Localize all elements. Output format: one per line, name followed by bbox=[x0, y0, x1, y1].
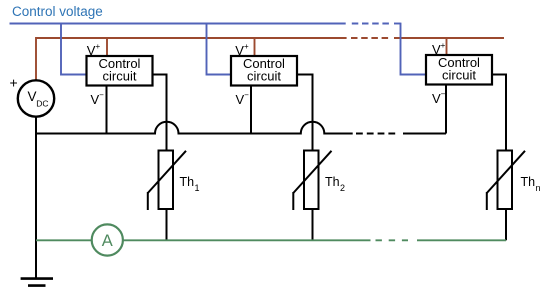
thermistor Th1 bbox=[148, 151, 186, 211]
wire: U1 V- return to black bus bbox=[106, 86, 108, 134]
svg-text:+: + bbox=[10, 75, 18, 91]
ground bbox=[21, 279, 53, 286]
thermistor Thn bbox=[487, 151, 525, 211]
wire: red V+ drop to U2 bbox=[254, 38, 256, 56]
wire: blue control-voltage bus (right segment) bbox=[394, 23, 401, 25]
wire: blue control-voltage bus (solid left section) bbox=[10, 23, 346, 25]
wire: Th1 bottom to green return bus bbox=[166, 209, 168, 240]
wire: U3 V- return to black bus bbox=[445, 85, 447, 134]
svg-text:Th: Th bbox=[180, 175, 195, 189]
wire: red V+ bus (dashed continuation) bbox=[351, 37, 389, 39]
wire: red V+ drop to U3 bbox=[446, 38, 448, 56]
svg-text:n: n bbox=[536, 183, 541, 193]
wire: U1 output to Th1 (crosses black bus under hop) bbox=[153, 75, 167, 151]
control circuit U2 bbox=[231, 56, 297, 86]
wire: red V+ drop to U1 bbox=[106, 38, 108, 56]
wire: red V+ bus from VDC positive terminal (solid left section) bbox=[36, 38, 347, 81]
svg-text:Th: Th bbox=[325, 175, 340, 189]
wire: blue drop to control circuit U3 bbox=[401, 23, 427, 75]
wire: green return bus (right segment to Thn) bbox=[417, 239, 506, 241]
thermistor Th2 bbox=[293, 151, 331, 211]
wire: Thn bottom to green return bus bbox=[505, 209, 507, 240]
wire: black V- bus with hops over Th1 and Th2 wires bbox=[36, 122, 353, 134]
svg-text:DC: DC bbox=[36, 99, 48, 109]
svg-text:Control voltage: Control voltage bbox=[12, 4, 103, 19]
svg-text:V: V bbox=[28, 89, 37, 104]
wire: U2 V- return to black bus bbox=[250, 86, 252, 134]
source VDC bbox=[18, 80, 54, 116]
wire: black V- bus (right segment to U3) bbox=[403, 133, 446, 135]
wire: blue drop to control circuit U1 bbox=[61, 23, 87, 75]
control circuit U1 bbox=[87, 56, 153, 86]
ammeter A bbox=[92, 224, 123, 255]
wire: red V+ bus (right section) bbox=[394, 37, 504, 39]
wire: blue drop to control circuit U2 bbox=[207, 23, 232, 75]
wire: black V- bus (dashed continuation) bbox=[356, 133, 399, 135]
wire: Th2 bottom to green return bus bbox=[312, 209, 314, 240]
wire: green return bus (dashed continuation) bbox=[376, 239, 409, 241]
wire: green return bus (VDC ground to ammeter) bbox=[36, 239, 92, 241]
svg-text:circuit: circuit bbox=[103, 68, 137, 83]
wire: green return bus (ammeter to Th2, solid) bbox=[123, 239, 371, 241]
wire: U3 output to Thn bbox=[492, 75, 506, 151]
svg-text:circuit: circuit bbox=[247, 68, 281, 83]
svg-text:A: A bbox=[102, 232, 113, 250]
svg-text:Th: Th bbox=[521, 175, 536, 189]
wire: U2 output to Th2 (crosses black bus under hop) bbox=[297, 75, 313, 151]
wire: blue control-voltage bus (dashed continuation) bbox=[352, 23, 389, 25]
wire: VDC negative terminal down to ground bbox=[35, 116, 37, 278]
svg-text:2: 2 bbox=[340, 183, 345, 193]
svg-text:1: 1 bbox=[195, 183, 200, 193]
svg-text:circuit: circuit bbox=[442, 67, 476, 82]
control circuit U3 bbox=[426, 55, 492, 85]
